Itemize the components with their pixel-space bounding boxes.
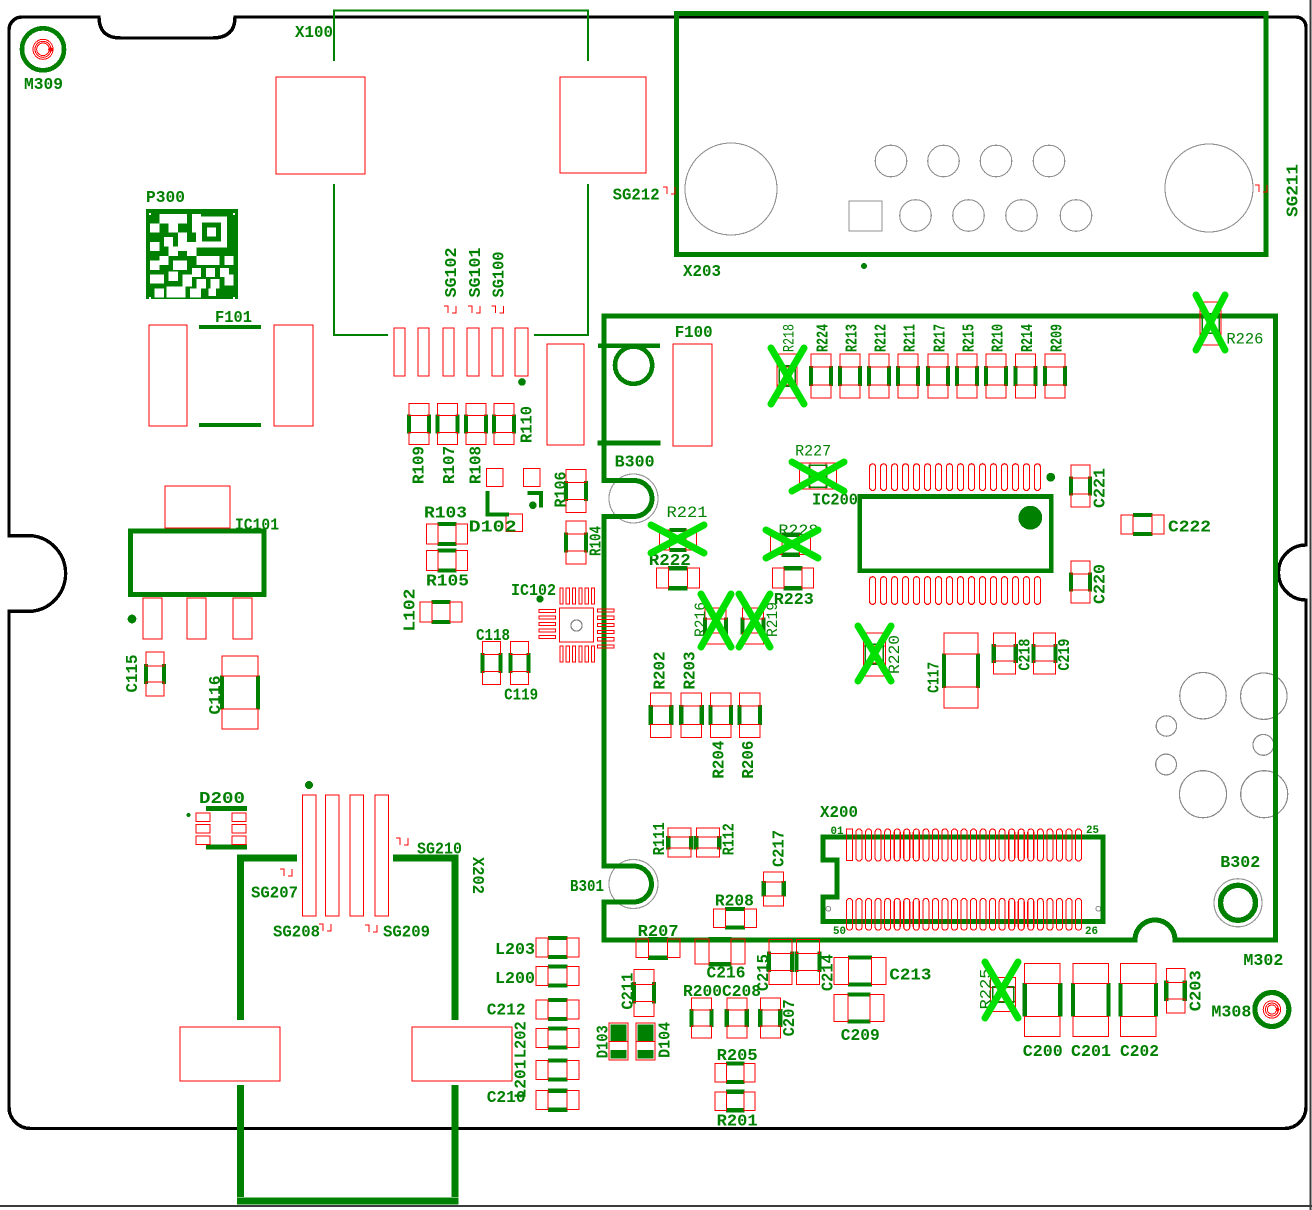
svg-text:SG207: SG207 — [251, 885, 298, 904]
svg-text:C203: C203 — [1188, 970, 1207, 1011]
svg-text:26: 26 — [1085, 926, 1098, 938]
svg-text:R211: R211 — [902, 324, 921, 352]
svg-text:C207: C207 — [781, 999, 800, 1036]
svg-text:L203: L203 — [495, 941, 535, 960]
svg-text:R209: R209 — [1049, 324, 1068, 352]
svg-text:D103: D103 — [595, 1025, 614, 1058]
svg-text:R203: R203 — [682, 652, 701, 690]
svg-text:R208: R208 — [715, 893, 754, 912]
svg-text:R110: R110 — [519, 406, 538, 443]
svg-text:R218: R218 — [781, 324, 799, 352]
svg-text:M302: M302 — [1243, 952, 1283, 971]
svg-text:50: 50 — [833, 926, 846, 938]
svg-text:M308: M308 — [1211, 1004, 1251, 1023]
svg-text:C116: C116 — [207, 676, 226, 715]
svg-text:L202: L202 — [512, 1021, 531, 1058]
svg-text:R103: R103 — [424, 505, 467, 524]
svg-text:R220: R220 — [886, 635, 904, 674]
svg-text:C200: C200 — [1023, 1043, 1063, 1062]
svg-text:C213: C213 — [889, 966, 931, 985]
svg-text:R109: R109 — [411, 446, 430, 484]
svg-text:C212: C212 — [487, 1002, 526, 1021]
svg-text:R112: R112 — [720, 823, 739, 855]
svg-text:R107: R107 — [441, 446, 460, 484]
svg-text:P300: P300 — [146, 189, 185, 208]
svg-text:C221: C221 — [1092, 468, 1111, 508]
svg-text:C201: C201 — [1071, 1043, 1111, 1062]
svg-text:X203: X203 — [683, 263, 721, 282]
svg-text:F100: F100 — [675, 324, 713, 343]
svg-text:C220: C220 — [1092, 564, 1111, 604]
svg-text:R221: R221 — [667, 504, 708, 522]
svg-text:SG210: SG210 — [417, 841, 462, 860]
svg-text:25: 25 — [1086, 825, 1099, 837]
svg-text:X200: X200 — [820, 804, 858, 823]
svg-text:C217: C217 — [771, 830, 790, 867]
svg-text:R105: R105 — [426, 573, 469, 592]
svg-text:R108: R108 — [468, 446, 487, 484]
svg-text:SG212: SG212 — [613, 187, 660, 206]
svg-text:IC101: IC101 — [235, 517, 279, 536]
svg-text:D104: D104 — [657, 1022, 676, 1058]
svg-text:R106: R106 — [553, 472, 572, 508]
svg-text:C117: C117 — [926, 662, 945, 693]
svg-text:R204: R204 — [711, 741, 730, 779]
svg-text:D102: D102 — [469, 519, 517, 538]
svg-text:01: 01 — [831, 826, 844, 838]
svg-text:C219: C219 — [1056, 639, 1075, 671]
svg-text:C118: C118 — [476, 627, 510, 646]
svg-text:R213: R213 — [844, 324, 863, 352]
svg-text:R200: R200 — [683, 983, 722, 1002]
svg-text:C209: C209 — [841, 1027, 880, 1046]
svg-text:R214: R214 — [1019, 324, 1038, 352]
svg-text:R219: R219 — [764, 602, 782, 637]
svg-text:R215: R215 — [961, 324, 980, 352]
svg-text:IC102: IC102 — [511, 582, 556, 601]
svg-text:R206: R206 — [740, 741, 759, 779]
svg-text:R210: R210 — [990, 324, 1009, 352]
svg-text:SG101: SG101 — [467, 248, 486, 298]
svg-text:R201: R201 — [717, 1112, 758, 1131]
svg-text:B302: B302 — [1220, 854, 1260, 873]
svg-text:SG100: SG100 — [491, 252, 510, 298]
svg-text:SG211: SG211 — [1285, 164, 1304, 217]
svg-text:R111: R111 — [651, 822, 670, 855]
svg-text:R202: R202 — [651, 652, 670, 690]
svg-text:C214: C214 — [819, 954, 838, 991]
svg-text:IC200: IC200 — [812, 492, 858, 511]
svg-text:SG209: SG209 — [383, 924, 430, 943]
svg-text:R207: R207 — [638, 923, 679, 942]
svg-text:C222: C222 — [1168, 518, 1211, 537]
svg-text:C218: C218 — [1017, 639, 1036, 671]
svg-text:R104: R104 — [588, 526, 607, 556]
svg-text:SG102: SG102 — [443, 248, 462, 298]
svg-text:R205: R205 — [717, 1047, 758, 1066]
svg-text:B300: B300 — [615, 454, 655, 473]
svg-text:R222: R222 — [649, 552, 691, 571]
svg-text:X100: X100 — [295, 24, 333, 43]
svg-text:C115: C115 — [124, 655, 143, 693]
svg-text:C202: C202 — [1120, 1043, 1159, 1062]
svg-text:R224: R224 — [815, 324, 834, 352]
svg-text:C215: C215 — [755, 954, 774, 991]
svg-text:C211: C211 — [620, 973, 639, 1010]
svg-text:L200: L200 — [495, 970, 535, 989]
svg-text:R226: R226 — [1226, 331, 1263, 349]
svg-text:C119: C119 — [504, 687, 538, 706]
svg-text:SG208: SG208 — [273, 924, 320, 943]
svg-text:R217: R217 — [932, 324, 951, 352]
svg-text:C216: C216 — [707, 965, 746, 984]
svg-text:R227: R227 — [795, 443, 831, 461]
svg-text:M309: M309 — [24, 76, 63, 95]
svg-text:X202: X202 — [467, 857, 486, 894]
svg-text:L201: L201 — [512, 1060, 531, 1099]
svg-text:L102: L102 — [402, 589, 421, 632]
svg-text:R212: R212 — [873, 324, 892, 352]
svg-text:F101: F101 — [215, 309, 252, 328]
svg-text:B301: B301 — [570, 878, 604, 897]
svg-text:D200: D200 — [199, 790, 245, 809]
